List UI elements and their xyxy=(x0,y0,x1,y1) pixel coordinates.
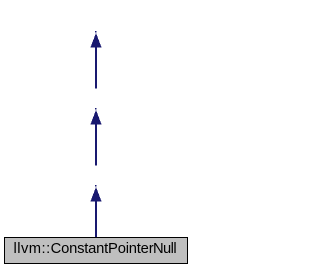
class label llvm::ConstantPointerNull xyxy=(14,241,177,257)
class box llvm::ConstantPointerNull xyxy=(4,237,188,264)
arrow 2 tip dot xyxy=(95,108,97,110)
inheritance arrow 1 (top) xyxy=(0,0,192,272)
arrow 2 stem xyxy=(95,125,97,166)
arrow 1 tip dot xyxy=(95,31,97,33)
arrow 3 tip dot xyxy=(95,185,97,187)
arrow 2 head xyxy=(90,110,101,125)
arrow 3 head xyxy=(90,187,101,202)
arrow 1 stem xyxy=(95,48,97,89)
arrow 1 head xyxy=(90,33,101,48)
arrow 3 stem xyxy=(95,202,97,238)
